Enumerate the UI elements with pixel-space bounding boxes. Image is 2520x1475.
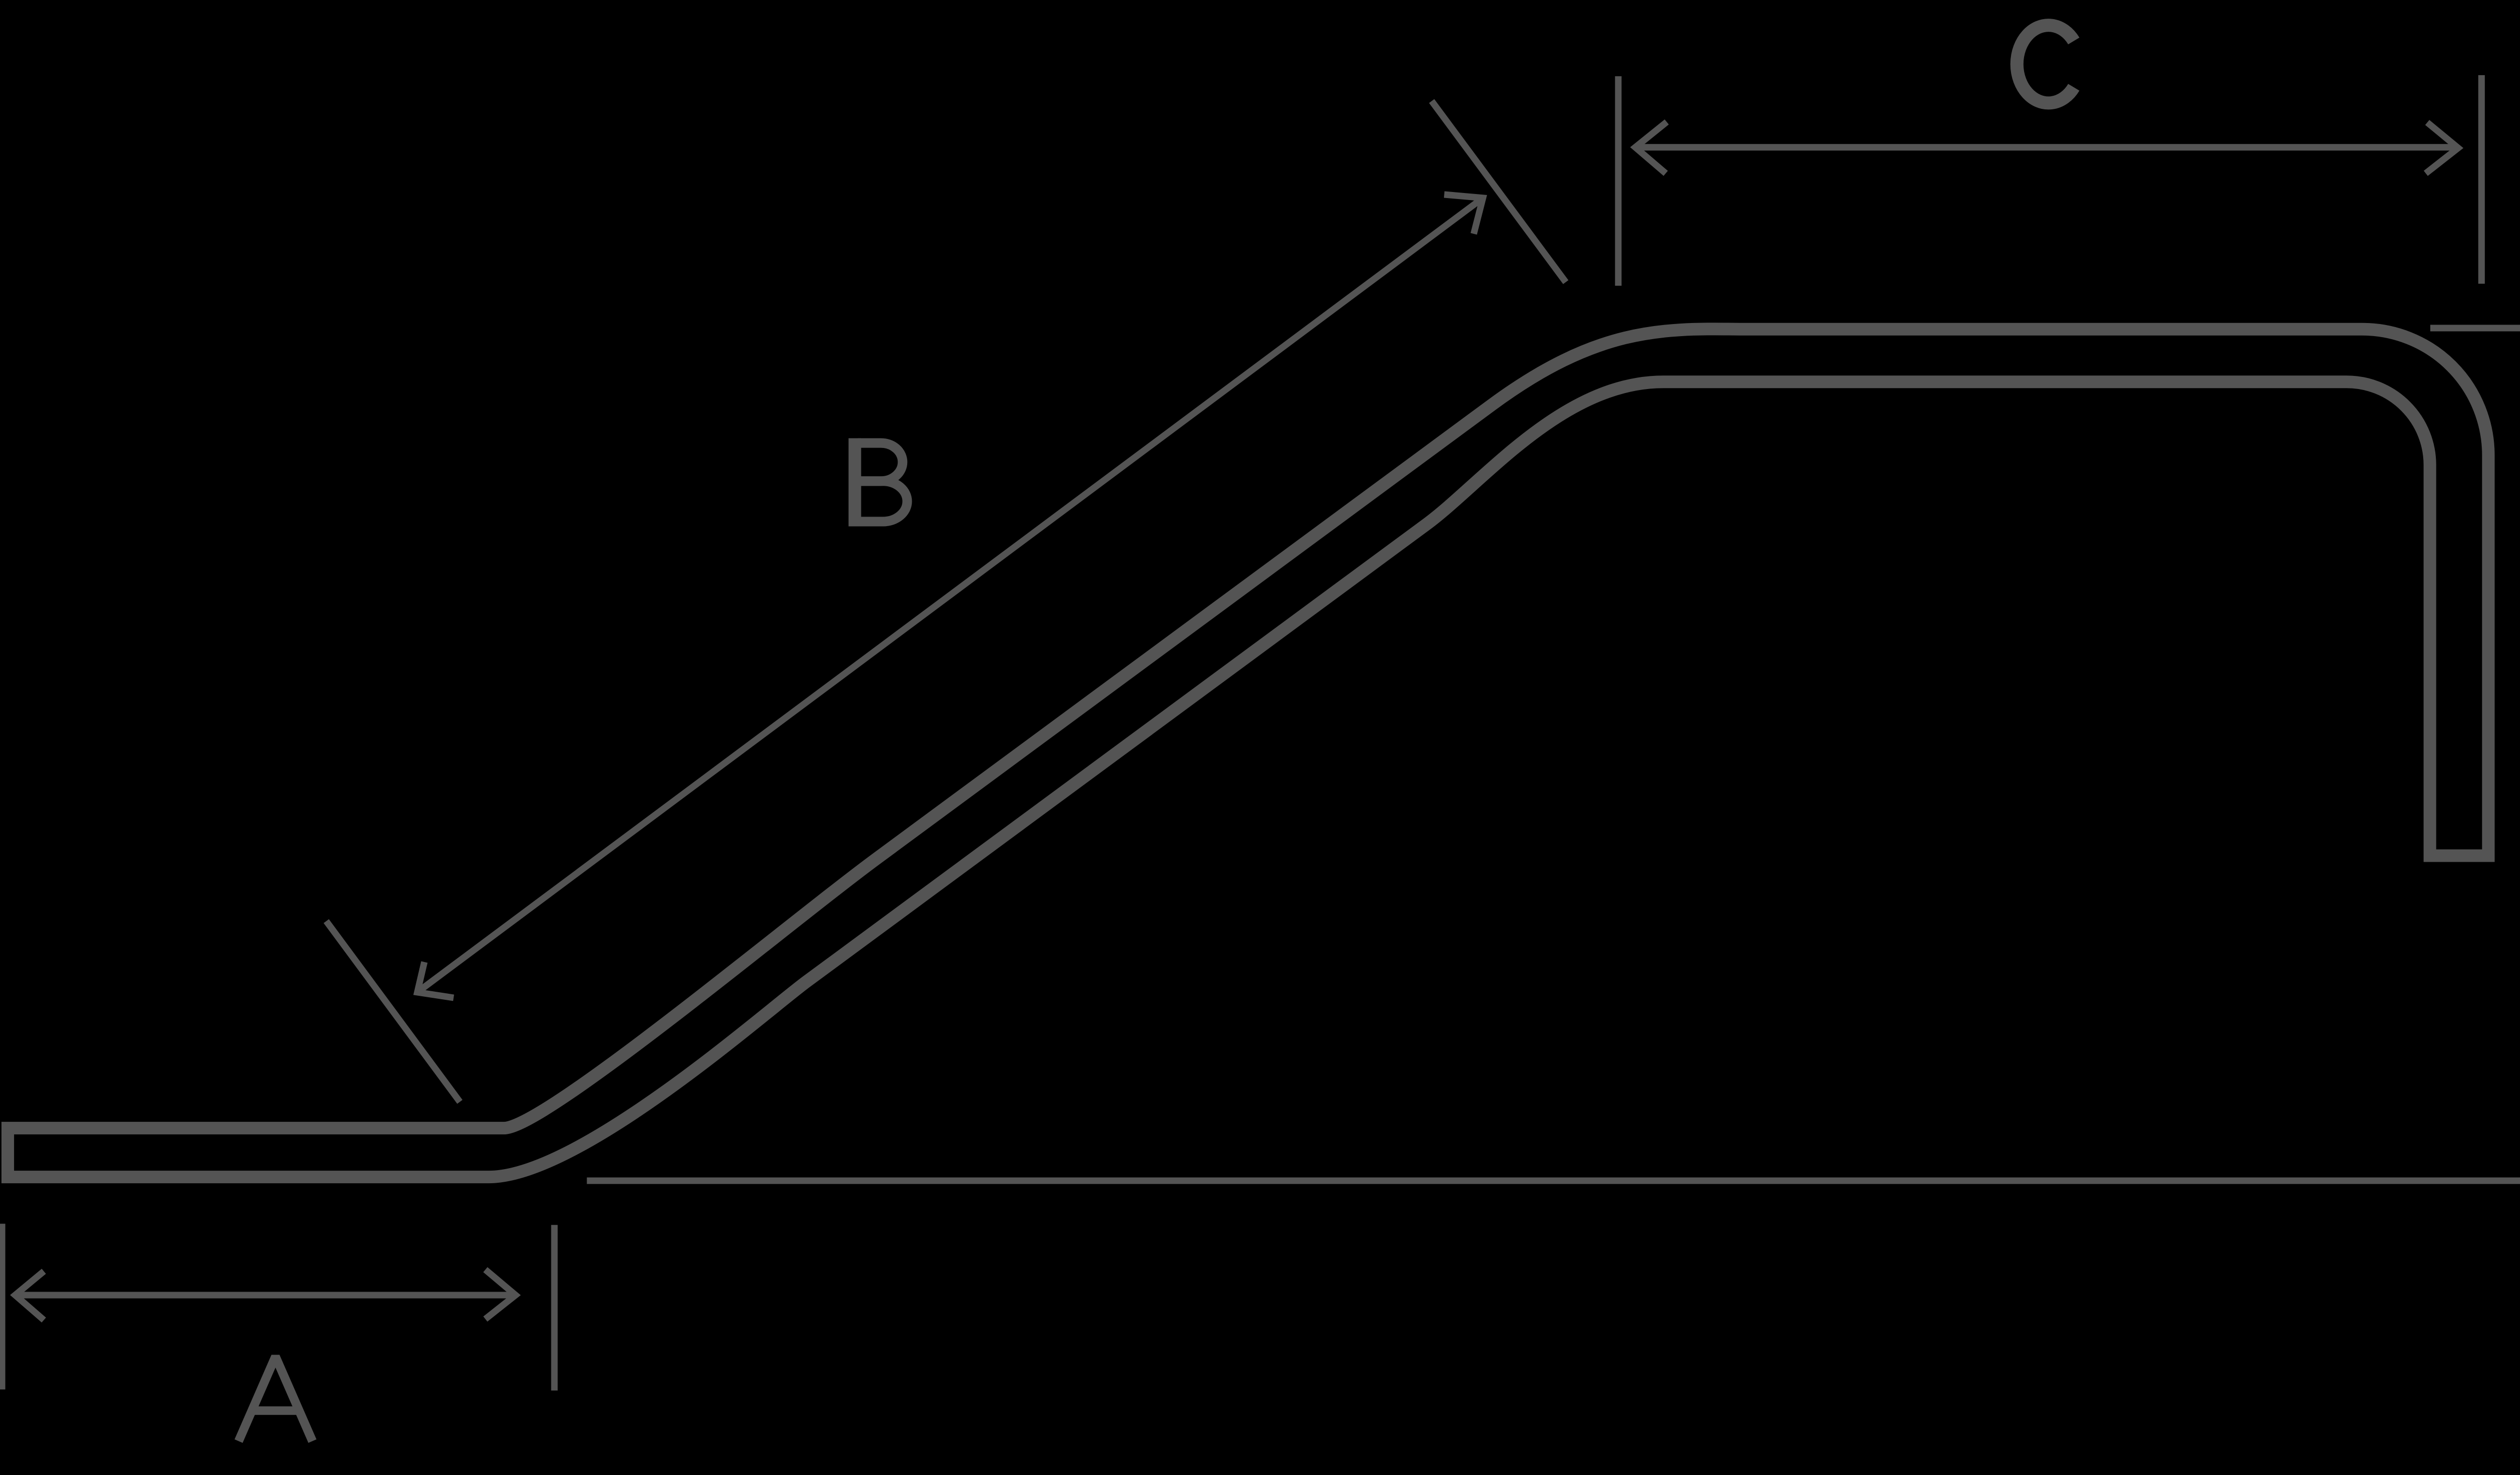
dim B lower tick [326,921,460,1102]
label A legs [238,1357,312,1441]
dim D top reference line [2430,325,2520,332]
dim B shaft [417,198,1483,992]
label B top bowl [858,443,903,481]
label B bottom bowl [858,481,907,522]
dim D bottom reference line [587,1178,2520,1184]
label C [2017,25,2074,103]
label A crossbar [249,1406,296,1415]
dim A left arrowhead [15,1271,44,1320]
dim B lower arrowhead [417,962,454,998]
dim C left tick [1615,76,1621,286]
dim A right arrowhead [485,1270,516,1319]
dim B upper tick [1432,101,1566,282]
dim A left tick [0,1224,6,1389]
dim C right tick [2478,75,2485,284]
label B stem [849,438,861,527]
dim B upper arrowhead [1444,195,1483,234]
tube (bent rod silhouette outline) [8,329,2488,1177]
dim C left arrowhead [1635,122,1667,173]
dim C right arrowhead [2426,122,2458,173]
dim A arrow shaft [15,1292,516,1299]
dim A right tick [551,1225,558,1391]
dim C arrow shaft [1635,144,2459,151]
